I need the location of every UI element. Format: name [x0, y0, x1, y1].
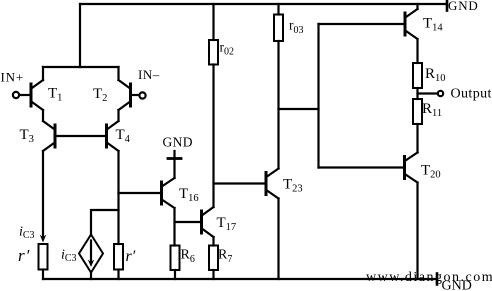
wire T16 emitter down to R6 [173, 208, 175, 246]
wire T14 emitter to R10 [416, 39, 418, 63]
wire right r' to bottom rail [117, 270, 119, 280]
wire R6 to bottom rail [174, 270, 176, 279]
wire to T20 base [319, 166, 405, 168]
wire T3 base to T4 base [55, 135, 107, 137]
svg-text:www.diangon.com: www.diangon.com [366, 270, 492, 285]
svg-text:T23: T23 [283, 177, 303, 195]
arrowhead current iC3 direction [40, 235, 47, 243]
transistor T2 [119, 80, 131, 110]
wire T3 emitter down to left r' (current iC3 path) [42, 151, 44, 237]
resistor r' (left) [39, 244, 48, 270]
ground terminal tick top right [446, 1, 449, 11]
resistor R6 [171, 246, 180, 271]
svg-text:T1: T1 [48, 86, 62, 104]
transistor T16 [162, 178, 175, 208]
resistor r02 [209, 40, 218, 65]
transistor T4 [107, 121, 119, 151]
node Output terminal [438, 91, 443, 96]
svg-text:r02: r02 [220, 40, 235, 58]
wire T20 emitter to bottom rail [416, 183, 418, 280]
svg-text:IN+: IN+ [1, 70, 24, 85]
svg-text:IN–: IN– [138, 67, 160, 82]
wire vertical base feed for T14 and T20 [317, 24, 319, 168]
wire R7 to bottom rail [212, 270, 214, 279]
wire T16 emitter node to T17 base [175, 221, 202, 223]
svg-text:T17: T17 [217, 215, 237, 233]
resistor r' (right) [114, 244, 123, 270]
svg-text:iC3: iC3 [61, 248, 77, 265]
wire T14 collector to top rail [416, 4, 418, 9]
svg-text:R7: R7 [218, 248, 232, 266]
svg-text:GND: GND [448, 0, 479, 13]
svg-text:Output: Output [451, 87, 492, 102]
wire current source to bottom rail [90, 273, 92, 280]
transistor T14 [405, 9, 418, 39]
wire T1 emitter to T3 collector [42, 110, 44, 121]
transistor T23 [266, 169, 279, 199]
wire r03 to top rail [277, 4, 279, 15]
wire IN- terminal to T2 base [131, 94, 140, 96]
resistor R11 [413, 99, 422, 124]
svg-text:iC3: iC3 [19, 225, 35, 242]
wire output node to Output terminal [418, 92, 438, 94]
wire IN+ terminal to T1 base [19, 94, 31, 96]
node IN- input terminal [139, 92, 145, 98]
resistor R10 [413, 63, 422, 88]
resistor r03 [274, 15, 283, 42]
wire T17 collector up to r02 [212, 65, 214, 208]
wire T2 emitter to T4 collector [117, 110, 119, 121]
svg-text:r′: r′ [126, 248, 136, 265]
wire bottom ground rail [43, 278, 437, 280]
wire T23 emitter to bottom rail [277, 199, 279, 280]
wire r03 node tee to base feed line [279, 108, 319, 110]
svg-text:T4: T4 [116, 127, 131, 145]
wire left r' to bottom rail [42, 270, 44, 280]
wire bridge joining T1 and T2 collectors [43, 66, 119, 68]
svg-text:R6: R6 [181, 248, 195, 266]
controlled current source iC3 (diamond) [79, 235, 103, 273]
svg-text:GND: GND [163, 135, 193, 150]
wire T16 collector to ground bar [173, 159, 175, 179]
wire top supply rail [80, 3, 447, 5]
svg-text:r03: r03 [289, 18, 304, 37]
arrow inside current source [90, 241, 92, 263]
ground symbol above T16 [168, 151, 181, 159]
transistor T17 [202, 207, 214, 237]
svg-text:R11: R11 [422, 101, 442, 119]
wire bridge left drop to T1 collector [42, 67, 44, 80]
transistor T1 [31, 80, 43, 110]
wire T17 collector node to T23 base [214, 182, 267, 184]
wire r02 to top rail [212, 4, 214, 40]
svg-text:r′: r′ [18, 246, 30, 265]
transistor T3 [43, 121, 55, 151]
resistor R7 [209, 246, 218, 271]
wire bridge right drop to T2 collector [117, 67, 119, 80]
svg-text:T14: T14 [423, 16, 443, 34]
svg-text:R10: R10 [425, 66, 446, 84]
wire T17 emitter to R7 [212, 237, 214, 246]
svg-text:T2: T2 [93, 86, 107, 104]
wire T23 collector up to r03 [277, 41, 279, 169]
svg-text:T3: T3 [20, 127, 34, 145]
transistor T20 [405, 153, 418, 183]
svg-text:T16: T16 [179, 186, 199, 204]
wire node to T16 base [119, 192, 162, 194]
svg-text:T20: T20 [421, 163, 441, 181]
ground terminal tick bottom right [436, 274, 439, 285]
wire drop from top rail to diff-pair bridge [79, 4, 81, 67]
wire R10 to R11 (output node) [416, 88, 418, 99]
wire T4 emitter down to right r' [117, 151, 119, 244]
node IN+ input terminal [13, 92, 19, 98]
wire elbow to current source top [91, 210, 119, 235]
wire R11 to T20 collector [416, 124, 418, 153]
wire to T14 base [319, 23, 406, 25]
